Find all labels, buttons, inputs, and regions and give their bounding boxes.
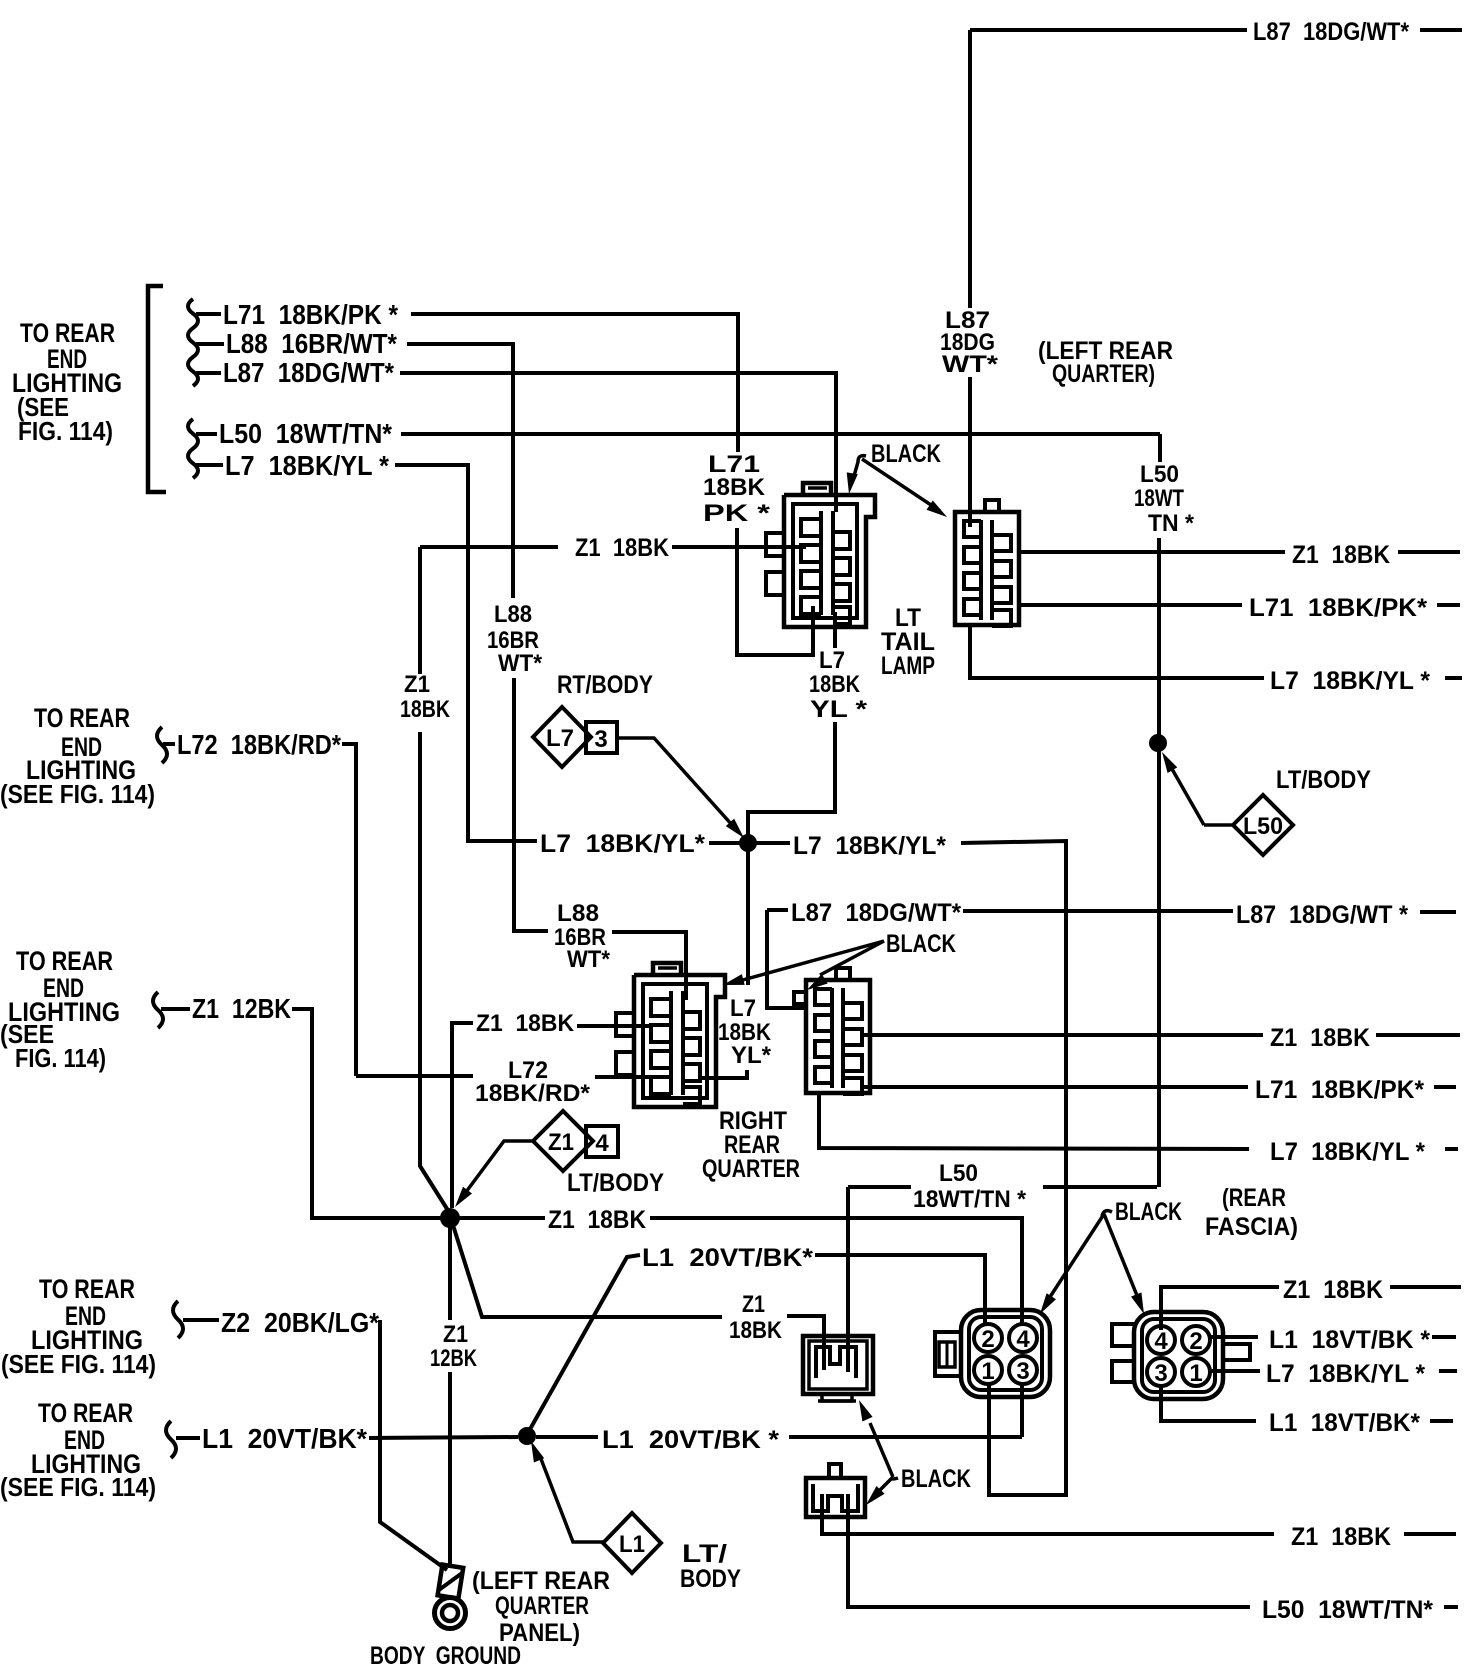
diamond L7 RT/BODY [533, 707, 591, 767]
leader arrow to L7 dot [726, 819, 744, 838]
svg-text:Z1 12BK: Z1 12BK [192, 993, 291, 1024]
wire Z1 row 1035 [860, 1033, 1263, 1037]
diamond L1 [603, 1513, 661, 1573]
svg-text:L7 18BK/YL*: L7 18BK/YL* [540, 830, 705, 858]
wire L1 pin3 row conn2 [1161, 1384, 1256, 1421]
svg-text:FIG. 114): FIG. 114) [18, 416, 113, 446]
svg-text:12BK: 12BK [430, 1345, 478, 1372]
svg-text:L71 18BK/PK*: L71 18BK/PK* [1255, 1076, 1424, 1104]
box pin 3 [586, 722, 617, 753]
svg-text:Z1 18BK: Z1 18BK [1283, 1276, 1383, 1304]
svg-text:L88 16BR/WT*: L88 16BR/WT* [226, 328, 397, 359]
wire L71 row 605 dash [1437, 603, 1460, 607]
svg-text:L7: L7 [819, 647, 845, 674]
leader BLACK pi up [870, 1423, 893, 1477]
svg-text:BODY GROUND: BODY GROUND [370, 1642, 521, 1668]
wire L1 pin3 drop [1020, 1384, 1024, 1437]
svg-text:FIG. 114): FIG. 114) [15, 1043, 106, 1073]
svg-text:L7: L7 [546, 725, 574, 752]
svg-text:Z1: Z1 [742, 1291, 765, 1318]
wire Z1 vertical lower [420, 732, 449, 1212]
svg-text:(REAR: (REAR [1222, 1184, 1286, 1212]
connector right rear quarter shell [634, 975, 725, 1107]
wire L7 pin stub out of connector [700, 1070, 747, 1078]
svg-text:18WT: 18WT [1134, 485, 1184, 512]
wire L87 left horizontal [400, 373, 836, 512]
connector 4-pin rear fascia left [961, 1310, 1050, 1397]
leader diagonal L50 [1168, 762, 1204, 825]
svg-text:4: 4 [595, 1130, 609, 1157]
svg-text:WT*: WT* [942, 351, 999, 378]
svg-text:(SEE FIG. 114): (SEE FIG. 114) [0, 779, 155, 809]
strain squiggle L72 [157, 727, 167, 763]
svg-text:TO REAR: TO REAR [38, 1398, 133, 1428]
strain squiggle rows L50-L7 [188, 419, 198, 478]
junction dot L50 [1149, 734, 1167, 752]
svg-text:L50 18WT/TN*: L50 18WT/TN* [219, 418, 392, 449]
wire Z1 12BK to ground [448, 1372, 452, 1568]
bracket block 1 [148, 286, 166, 492]
wire L87 mid dash [1420, 910, 1456, 914]
wire L71 horizontal [411, 314, 738, 452]
wire Z1 row 1534 dash [1404, 1532, 1456, 1536]
svg-text:QUARTER: QUARTER [495, 1592, 589, 1620]
svg-text:18BK: 18BK [703, 474, 766, 501]
wire L7 stub horizontal [395, 465, 537, 841]
arrow BLACK to comb connector [927, 501, 948, 518]
svg-text:BLACK: BLACK [886, 930, 956, 958]
svg-text:YL *: YL * [810, 696, 868, 723]
wire L7 row 1149 dash [1445, 1147, 1458, 1151]
svg-text:18BK: 18BK [729, 1317, 783, 1344]
wire stub Z1 12BK [161, 1007, 190, 1011]
junction dot Z1 [440, 1208, 460, 1228]
svg-text:TO REAR: TO REAR [34, 703, 130, 733]
wire L87 vertical lower [968, 377, 972, 527]
wire Z1 row right [672, 545, 806, 549]
wire L7 down to dot [748, 722, 835, 838]
svg-text:L50: L50 [1243, 813, 1283, 840]
wire Z1 pin4 riser [1161, 1287, 1279, 1330]
wire Z1 12BK corner down [292, 1009, 443, 1218]
wire L87 top dash [1420, 28, 1462, 32]
svg-text:18BK: 18BK [400, 696, 451, 723]
arrow BLACK bottom B [1131, 1292, 1144, 1314]
svg-text:L88: L88 [494, 601, 532, 628]
wire Z1 row 1534 [822, 1494, 1274, 1534]
wire L1 row 1255 [815, 1255, 985, 1324]
diamond Z1 LT/BODY [533, 1111, 593, 1171]
svg-text:4: 4 [1016, 1326, 1030, 1353]
wire Z1 row 552 dash [1398, 550, 1460, 554]
svg-text:Z1 18BK: Z1 18BK [1270, 1024, 1370, 1052]
wire Z1 diagonal branch [452, 1222, 722, 1317]
svg-text:Z1: Z1 [548, 1129, 574, 1156]
leader arrow to Z1 dot [455, 1187, 472, 1207]
wire L7 long vertical [961, 841, 1066, 1495]
svg-text:RT/BODY: RT/BODY [557, 671, 653, 699]
wire Z1 into pi connector [787, 1316, 824, 1370]
arrow BLACK to LT connector [847, 472, 858, 494]
leader hook BLACK pi [891, 1478, 898, 1479]
svg-text:L1 20VT/BK*: L1 20VT/BK* [642, 1244, 813, 1272]
strain squiggle Z1 12BK [153, 992, 163, 1028]
svg-text:L1 18VT/BK*: L1 18VT/BK* [1269, 1409, 1420, 1437]
wire L71 row 1087 dash [1434, 1085, 1456, 1089]
svg-text:L1 20VT/BK*: L1 20VT/BK* [202, 1423, 367, 1454]
arrow BLACK pi down [866, 1486, 885, 1505]
connector 4-pin left tab [935, 1332, 961, 1376]
box pin 4 [586, 1126, 618, 1157]
svg-text:L7 18BK/YL *: L7 18BK/YL * [1270, 667, 1430, 695]
connector pi 2 top tab [829, 1464, 841, 1478]
svg-text:QUARTER: QUARTER [702, 1155, 800, 1183]
arrow BLACK mid B [807, 974, 828, 990]
connector right rear quarter black plug [806, 980, 870, 1093]
svg-text:LAMP: LAMP [881, 652, 935, 680]
svg-text:BODY: BODY [680, 1565, 741, 1593]
svg-text:L7 18BK/YL *: L7 18BK/YL * [225, 450, 389, 481]
strain squiggle rows L71-L87 [188, 299, 198, 386]
wire Z1 row 1218 left [456, 1216, 545, 1220]
wire Z1 label mid row [452, 1023, 473, 1208]
wire L7 row 1149 [819, 1094, 1249, 1149]
leader hook BLACK bottom [1102, 1211, 1112, 1216]
svg-text:L1 18VT/BK *: L1 18VT/BK * [1269, 1326, 1430, 1354]
svg-text:LT/: LT/ [682, 1540, 727, 1568]
wire L72 row to label [356, 1074, 473, 1078]
leader BLACK mid B [820, 941, 884, 975]
wire stub Z2 [183, 1318, 219, 1322]
wire L1 row 1421 dash [1430, 1419, 1453, 1423]
arrow BLACK bottom A [1040, 1293, 1056, 1314]
wire L87 down to comb [767, 910, 808, 1008]
wire L1 row 1337 dash [1432, 1335, 1456, 1339]
wire Z1 row 1035 dash [1376, 1033, 1460, 1037]
svg-text:(LEFT REAR: (LEFT REAR [472, 1567, 610, 1595]
svg-text:L1: L1 [619, 1531, 645, 1558]
svg-text:FASCIA): FASCIA) [1205, 1213, 1298, 1241]
strain squiggle L1 [166, 1421, 176, 1458]
diamond L50 [1233, 795, 1293, 855]
wire stub L50 [196, 432, 217, 436]
svg-text:4: 4 [1154, 1328, 1168, 1355]
wire L7 pin1 row conn2 [1210, 1369, 1260, 1373]
wire L1 row right [789, 1435, 1022, 1439]
svg-text:QUARTER): QUARTER) [1052, 360, 1155, 388]
svg-text:2: 2 [981, 1326, 994, 1353]
svg-text:3: 3 [594, 726, 607, 753]
svg-text:TO REAR: TO REAR [16, 946, 113, 976]
leader BLACK pi down [878, 1477, 893, 1492]
svg-text:18BK/RD*: 18BK/RD* [475, 1080, 591, 1107]
leader BLACK bottom A [1048, 1214, 1104, 1300]
svg-text:L1 20VT/BK *: L1 20VT/BK * [602, 1426, 779, 1454]
svg-text:L87 18DG/WT*: L87 18DG/WT* [1253, 18, 1409, 46]
svg-text:L7: L7 [730, 995, 756, 1022]
svg-text:LT/BODY: LT/BODY [567, 1169, 664, 1197]
arrow BLACK mid A [723, 974, 745, 985]
wire L7 row to dot [709, 841, 741, 845]
wire stub L71 [196, 312, 221, 316]
wire stub L1 [176, 1436, 200, 1440]
svg-text:L71 18BK/PK *: L71 18BK/PK * [223, 299, 398, 330]
wire L50 bottom row [848, 1494, 1250, 1607]
connector LT tail lamp black plug [955, 512, 1019, 625]
leader diagonal L1 diamond [541, 1459, 604, 1542]
wire L1 row mid [536, 1435, 598, 1439]
wire stub L88 [196, 342, 224, 346]
connector right tabs [1112, 1324, 1134, 1346]
wire L87 vertical upper [968, 30, 972, 308]
svg-text:L50 18WT/TN*: L50 18WT/TN* [1262, 1596, 1433, 1624]
svg-text:18WT/TN *: 18WT/TN * [913, 1186, 1027, 1213]
leader from diamond Z1 [463, 1141, 533, 1196]
leader from box 3 [617, 738, 733, 826]
wire Z1 12BK vertical below junction [448, 1218, 452, 1320]
connector LT tail lamp shell [784, 495, 875, 627]
svg-text:L72 18BK/RD*: L72 18BK/RD* [177, 729, 341, 760]
wire stub L87 [196, 371, 221, 375]
svg-text:TN *: TN * [1148, 510, 1195, 537]
wire L7 row 678 dash [1445, 676, 1462, 680]
wire L88 horizontal [407, 344, 513, 598]
wire Z2 vertical [380, 1320, 447, 1570]
wire L7 from LT lamp comb [833, 612, 837, 648]
wire L7 row right of dot [756, 841, 790, 845]
svg-text:Z1 18BK: Z1 18BK [1291, 1523, 1391, 1551]
wire L72 into connector [595, 1075, 652, 1079]
svg-text:Z1 18BK: Z1 18BK [1292, 541, 1390, 569]
leader arrow to L50 dot [1162, 752, 1177, 773]
connector pi 1 bottom tab [822, 1394, 852, 1401]
svg-text:L7 18BK/YL*: L7 18BK/YL* [793, 832, 946, 860]
connector pi 1 body [803, 1336, 873, 1394]
wire L1 to junction [369, 1437, 518, 1438]
svg-text:LT/BODY: LT/BODY [1276, 766, 1371, 794]
wire L50 bottom dash [1444, 1605, 1458, 1609]
svg-text:L87 18DG/WT*: L87 18DG/WT* [223, 357, 394, 388]
wire L50 row to stack label [1043, 1185, 1157, 1189]
svg-text:Z1 18BK: Z1 18BK [575, 534, 669, 562]
leader arrow to L1 dot [531, 1441, 544, 1463]
wire L1 pin2 row conn2 [1210, 1335, 1258, 1339]
svg-text:2: 2 [1189, 1328, 1202, 1355]
wire stub L72 [163, 742, 175, 746]
connector pi 2 body [806, 1478, 865, 1517]
wire Z1 row 552 [1019, 550, 1285, 554]
leader BLACK top diagonal [862, 459, 940, 511]
wire L7 row 1371 dash [1439, 1369, 1457, 1373]
svg-text:WT*: WT* [567, 946, 611, 973]
svg-text:Z2 20BK/LG*: Z2 20BK/LG* [221, 1307, 379, 1338]
svg-text:Z1 18BK: Z1 18BK [476, 1010, 575, 1037]
svg-text:L50: L50 [1140, 461, 1179, 488]
svg-text:18BK: 18BK [809, 671, 861, 698]
svg-text:1: 1 [981, 1358, 994, 1385]
arrow BLACK pi up [859, 1400, 873, 1422]
svg-text:1: 1 [1189, 1360, 1202, 1387]
svg-text:TO REAR: TO REAR [39, 1274, 135, 1304]
svg-text:Z1: Z1 [443, 1321, 468, 1348]
wire L7 vertical to junction [746, 847, 750, 985]
svg-text:L87 18DG/WT *: L87 18DG/WT * [1236, 901, 1408, 929]
svg-text:WT*: WT* [498, 650, 543, 677]
connector right side tab [1224, 1344, 1250, 1360]
body ground terminal [438, 1565, 464, 1599]
svg-text:L50: L50 [939, 1160, 978, 1187]
svg-text:L7 18BK/YL *: L7 18BK/YL * [1270, 1138, 1425, 1166]
connector 4-pin rear fascia right [1134, 1312, 1223, 1399]
svg-text:Z1 18BK: Z1 18BK [548, 1206, 646, 1234]
svg-text:BLACK: BLACK [901, 1465, 971, 1493]
wire L50 horizontal [401, 432, 1160, 436]
junction dot L1 [518, 1427, 536, 1445]
svg-text:3: 3 [1154, 1360, 1167, 1387]
leader BLACK mid A [739, 941, 884, 981]
wire L87 top horizontal [970, 28, 1247, 32]
wire L71 row 1087 [860, 1085, 1248, 1089]
svg-text:L71 18BK/PK*: L71 18BK/PK* [1249, 594, 1427, 622]
wire Z1 row 1218 right [650, 1218, 1022, 1324]
wire L50 left segment [848, 1185, 911, 1189]
svg-text:Z1: Z1 [404, 671, 430, 698]
svg-text:L87 18DG/WT*: L87 18DG/WT* [791, 899, 961, 927]
leader BLACK bottom B [1104, 1214, 1138, 1298]
svg-text:BLACK: BLACK [1115, 1198, 1182, 1226]
wire Z1 into shell connector [577, 1024, 650, 1028]
svg-text:(SEE FIG. 114): (SEE FIG. 114) [1, 1349, 156, 1379]
wire L88 vertical lower [514, 678, 548, 931]
svg-text:L7 18BK/YL *: L7 18BK/YL * [1266, 1360, 1425, 1388]
wire Z1 vertical upper [418, 547, 422, 674]
svg-text:L88: L88 [557, 900, 599, 927]
svg-text:PK *: PK * [703, 500, 771, 527]
strain squiggle Z2 [173, 1301, 183, 1338]
svg-text:BLACK: BLACK [871, 440, 941, 468]
wire L71 vertical lower [737, 528, 813, 655]
wire L50 pin inside pi1 [846, 1336, 850, 1372]
wire Z1 row left [420, 545, 558, 549]
wire L87 mid row [963, 909, 1233, 913]
wire L50 corner [1158, 434, 1162, 462]
wire L88 into connector [612, 932, 686, 1000]
wire L87 mid row left [767, 908, 788, 912]
svg-text:(SEE FIG. 114): (SEE FIG. 114) [0, 1472, 156, 1502]
wire L50 vertical [1157, 538, 1161, 1187]
wire L50 down to black connector [846, 1187, 850, 1372]
wire Z1 row 1287 dash [1390, 1285, 1461, 1289]
junction dot L7 [739, 834, 757, 852]
leader hook BLACK top [854, 456, 866, 476]
svg-text:YL*: YL* [731, 1042, 772, 1069]
wire L7 row 678 [970, 625, 1264, 678]
wire L1 diagonal to row 1255 [529, 1255, 640, 1431]
wire stub L7 [196, 463, 223, 467]
svg-text:3: 3 [1016, 1358, 1029, 1385]
wire L72 corner down [342, 744, 356, 1076]
wire L71 row 605 [1019, 603, 1242, 607]
